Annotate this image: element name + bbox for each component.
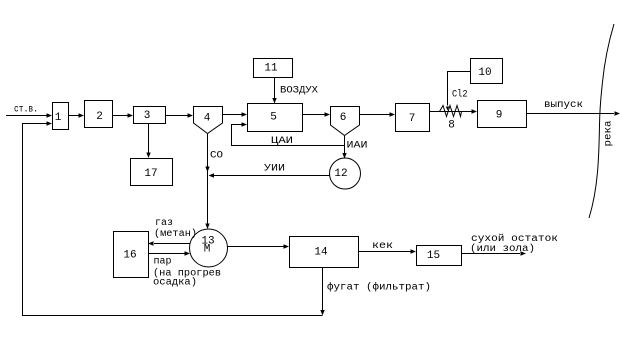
svg-text:17: 17: [144, 168, 157, 180]
block 15: [417, 246, 462, 266]
wire UII from 12 to sludge line: [209, 173, 330, 177]
wire steam 16 to 13: [148, 251, 190, 255]
wire kek 14 to 15: [358, 249, 416, 253]
digester 13: [190, 229, 228, 267]
svg-text:8: 8: [448, 120, 455, 132]
svg-text:(метан): (метан): [154, 228, 197, 240]
wire 5 to 6: [302, 112, 330, 116]
wire 4 to 5: [223, 112, 247, 116]
wire TsAI return loop to 5: [232, 122, 345, 145]
svg-text:(или зола): (или зола): [470, 243, 535, 255]
wire dry residue outlet: [461, 251, 526, 255]
settler 6: [331, 107, 360, 136]
wire fugat from 14 down: [320, 267, 324, 316]
wire gas 13 to 16: [148, 241, 190, 245]
block 14: [290, 237, 359, 268]
block 17: [131, 159, 173, 186]
svg-text:пар: пар: [154, 257, 172, 268]
svg-text:7: 7: [409, 113, 416, 125]
svg-text:Cl2: Cl2: [452, 89, 468, 101]
svg-text:осадка): осадка): [153, 277, 197, 289]
meter 12: [330, 158, 361, 189]
wire st.v. inlet: [6, 113, 52, 117]
wire Cl2 from 10 to 8: [446, 72, 471, 111]
svg-text:12: 12: [334, 168, 347, 180]
wire 2 to 3: [113, 113, 134, 117]
wire 13 to 14: [228, 244, 290, 248]
block 16: [114, 232, 149, 278]
wire sludge from 4 down to 13: [205, 134, 209, 229]
block 1: [53, 103, 69, 130]
river bank curve: [589, 24, 614, 218]
svg-text:3: 3: [144, 110, 151, 122]
svg-text:ВОЗДУХ: ВОЗДУХ: [280, 86, 318, 97]
block 9: [478, 101, 527, 128]
svg-text:5: 5: [270, 112, 277, 124]
wire 6 down to 12: [342, 136, 346, 159]
svg-text:11: 11: [264, 63, 278, 75]
svg-text:М: М: [204, 244, 211, 256]
svg-text:газ: газ: [155, 218, 173, 229]
wire outlet vypusk: [526, 111, 620, 115]
svg-text:ИАИ: ИАИ: [347, 141, 368, 152]
svg-text:река: река: [604, 121, 615, 147]
svg-text:14: 14: [314, 247, 328, 259]
wire 6 to 7: [360, 112, 395, 116]
wire 11 down to 5 (air): [272, 77, 276, 104]
wire 3 down to 17: [146, 124, 150, 159]
svg-text:1: 1: [55, 112, 62, 124]
settler 4: [194, 107, 223, 134]
svg-text:2: 2: [96, 111, 103, 123]
block 3: [134, 107, 166, 124]
block 10: [471, 59, 503, 84]
block 11: [254, 59, 293, 78]
wire 1 to 2: [68, 113, 84, 117]
mixer 8 zigzag: [440, 106, 462, 132]
svg-text:10: 10: [478, 67, 491, 79]
svg-text:6: 6: [340, 112, 347, 124]
svg-text:ЦАИ: ЦАИ: [271, 136, 293, 147]
svg-text:15: 15: [427, 250, 440, 262]
svg-text:выпуск: выпуск: [544, 100, 583, 111]
block 7: [396, 104, 430, 132]
svg-text:СО: СО: [210, 151, 223, 162]
svg-text:16: 16: [123, 250, 136, 262]
block 5: [248, 104, 303, 132]
svg-text:УИИ: УИИ: [264, 164, 285, 175]
svg-text:9: 9: [496, 110, 503, 122]
block 2: [85, 101, 113, 128]
wire 3 to 4: [165, 113, 193, 117]
wire fugat return bottom and riser to 1: [23, 121, 323, 315]
svg-text:фугат (фильтрат): фугат (фильтрат): [327, 281, 431, 294]
svg-text:4: 4: [204, 113, 211, 125]
wire 7 to 9: [429, 109, 477, 113]
svg-text:ст.в.: ст.в.: [14, 105, 38, 116]
svg-text:кек: кек: [372, 241, 393, 252]
